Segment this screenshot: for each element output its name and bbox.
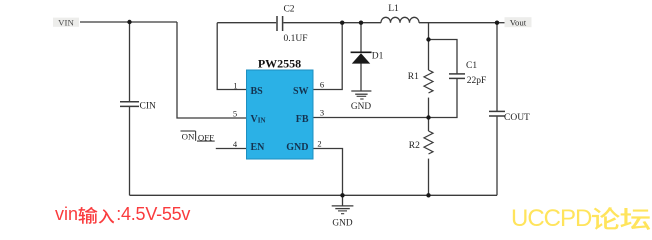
ground symbol near D1	[351, 91, 371, 99]
pin number 5	[233, 108, 237, 118]
svg-text:6: 6	[320, 80, 324, 90]
pin number 6	[320, 80, 324, 90]
junction node VIN/CIN	[127, 20, 131, 24]
diode D1	[351, 52, 372, 63]
wire R1 top branch	[428, 23, 430, 70]
pin name EN	[251, 142, 266, 153]
svg-text:R2: R2	[409, 141, 420, 151]
svg-text:5: 5	[233, 108, 237, 118]
svg-text:FB: FB	[296, 114, 309, 125]
wire C2 branch to pin 1 BS	[217, 23, 246, 90]
wire COUT column bottom	[496, 117, 498, 196]
pin number 2	[317, 139, 321, 149]
switch label OFF	[198, 132, 214, 142]
wire FB trace	[313, 117, 429, 119]
wire C1 top branch	[429, 40, 458, 74]
pin number 1	[233, 80, 237, 90]
capacitor C1	[449, 74, 465, 79]
pin name FB	[296, 114, 309, 125]
annotation red input range text	[55, 204, 190, 224]
svg-text:L1: L1	[388, 4, 399, 14]
switch S1 ON/OFF	[181, 131, 215, 141]
value 22pF	[467, 76, 487, 86]
svg-text:COUT: COUT	[504, 113, 530, 123]
junction node Vout	[495, 21, 499, 25]
svg-text:C1: C1	[466, 61, 477, 71]
wire Vout stub	[497, 22, 505, 24]
net label Vout	[505, 17, 532, 27]
wire C1 bottom branch	[429, 79, 458, 118]
junction node D1 cathode	[359, 21, 363, 25]
svg-text:SW: SW	[293, 86, 309, 97]
svg-text:4: 4	[233, 139, 238, 149]
label GND near D1	[351, 102, 371, 112]
label L1	[388, 4, 399, 14]
label C1	[466, 61, 477, 71]
svg-text:vin: vin	[55, 204, 78, 224]
pin name GND	[286, 142, 308, 153]
resistor R2	[424, 131, 433, 154]
svg-text:UCCPD: UCCPD	[511, 205, 592, 232]
ground symbol power GND	[332, 195, 354, 213]
junction node ground bus	[340, 193, 344, 197]
switch label ON	[182, 131, 195, 141]
pin name SW	[293, 86, 309, 97]
wire GND pin 2 drop	[313, 149, 343, 196]
value 0.1UF	[284, 34, 308, 44]
wire VIN drop to pin 5	[177, 22, 247, 118]
svg-text:VIN: VIN	[58, 17, 74, 27]
wire CIN column top	[129, 22, 131, 101]
pin number 3	[320, 108, 324, 118]
junction node FB divider	[426, 115, 430, 119]
junction node SW/rail	[340, 21, 344, 25]
svg-text:VIN: VIN	[251, 114, 266, 125]
capacitor C2	[277, 16, 283, 31]
capacitor COUT	[489, 111, 505, 116]
svg-text:0.1UF: 0.1UF	[284, 34, 308, 44]
svg-text:GND: GND	[286, 142, 308, 153]
label COUT	[504, 113, 530, 123]
label GND power	[332, 218, 352, 228]
label C2	[283, 5, 294, 15]
svg-text:3: 3	[320, 108, 324, 118]
net label VIN	[53, 17, 79, 27]
wire COUT column top	[496, 23, 498, 111]
junction node R2 bottom	[426, 193, 430, 197]
svg-text:R1: R1	[408, 72, 419, 82]
svg-text:BS: BS	[251, 86, 264, 97]
svg-text:GND: GND	[332, 218, 352, 228]
svg-text:22pF: 22pF	[467, 76, 487, 86]
wire R2 bottom lead	[428, 159, 430, 196]
svg-text:1: 1	[233, 80, 237, 90]
capacitor CIN	[120, 102, 139, 107]
IC U1 PW2558 body	[247, 70, 314, 159]
svg-text:C2: C2	[283, 5, 294, 15]
wire top rail L1 to Vout	[419, 22, 497, 24]
svg-text:PW2558: PW2558	[258, 56, 301, 70]
resistor R1	[424, 70, 433, 93]
wire R2 top lead	[428, 118, 430, 132]
inductor L1	[381, 17, 419, 22]
wire SW pin to rail	[313, 23, 342, 90]
wire VIN rail	[80, 21, 177, 23]
svg-text:EN: EN	[251, 142, 266, 153]
label R1	[408, 72, 419, 82]
wire D1 anode to ground	[360, 64, 362, 91]
wire top rail C2 to L1	[283, 22, 381, 24]
svg-text::4.5V-55v: :4.5V-55v	[116, 204, 190, 224]
svg-text:D1: D1	[372, 52, 384, 62]
svg-text:CIN: CIN	[140, 101, 157, 111]
junction node R1/C1 top	[426, 37, 430, 41]
svg-text:ON: ON	[182, 131, 195, 141]
label D1	[372, 52, 384, 62]
svg-text:2: 2	[317, 139, 321, 149]
pin number 4	[233, 139, 238, 149]
label R2	[409, 141, 420, 151]
wire bottom bus	[130, 194, 498, 196]
label CIN	[140, 101, 157, 111]
wire CIN column bottom	[129, 107, 131, 195]
wire EN lead	[216, 148, 247, 150]
pin name VIN	[251, 114, 266, 125]
watermark UCCPD forum text	[511, 205, 650, 232]
svg-text:Vout: Vout	[510, 18, 527, 28]
svg-text:GND: GND	[351, 102, 371, 112]
wire R1 bottom lead	[428, 98, 430, 118]
wire D1 cathode lead	[360, 23, 362, 52]
label PW2558	[258, 56, 301, 70]
pin name BS	[251, 86, 264, 97]
svg-text:OFF: OFF	[198, 132, 214, 142]
wire top rail left of C2	[217, 22, 276, 24]
